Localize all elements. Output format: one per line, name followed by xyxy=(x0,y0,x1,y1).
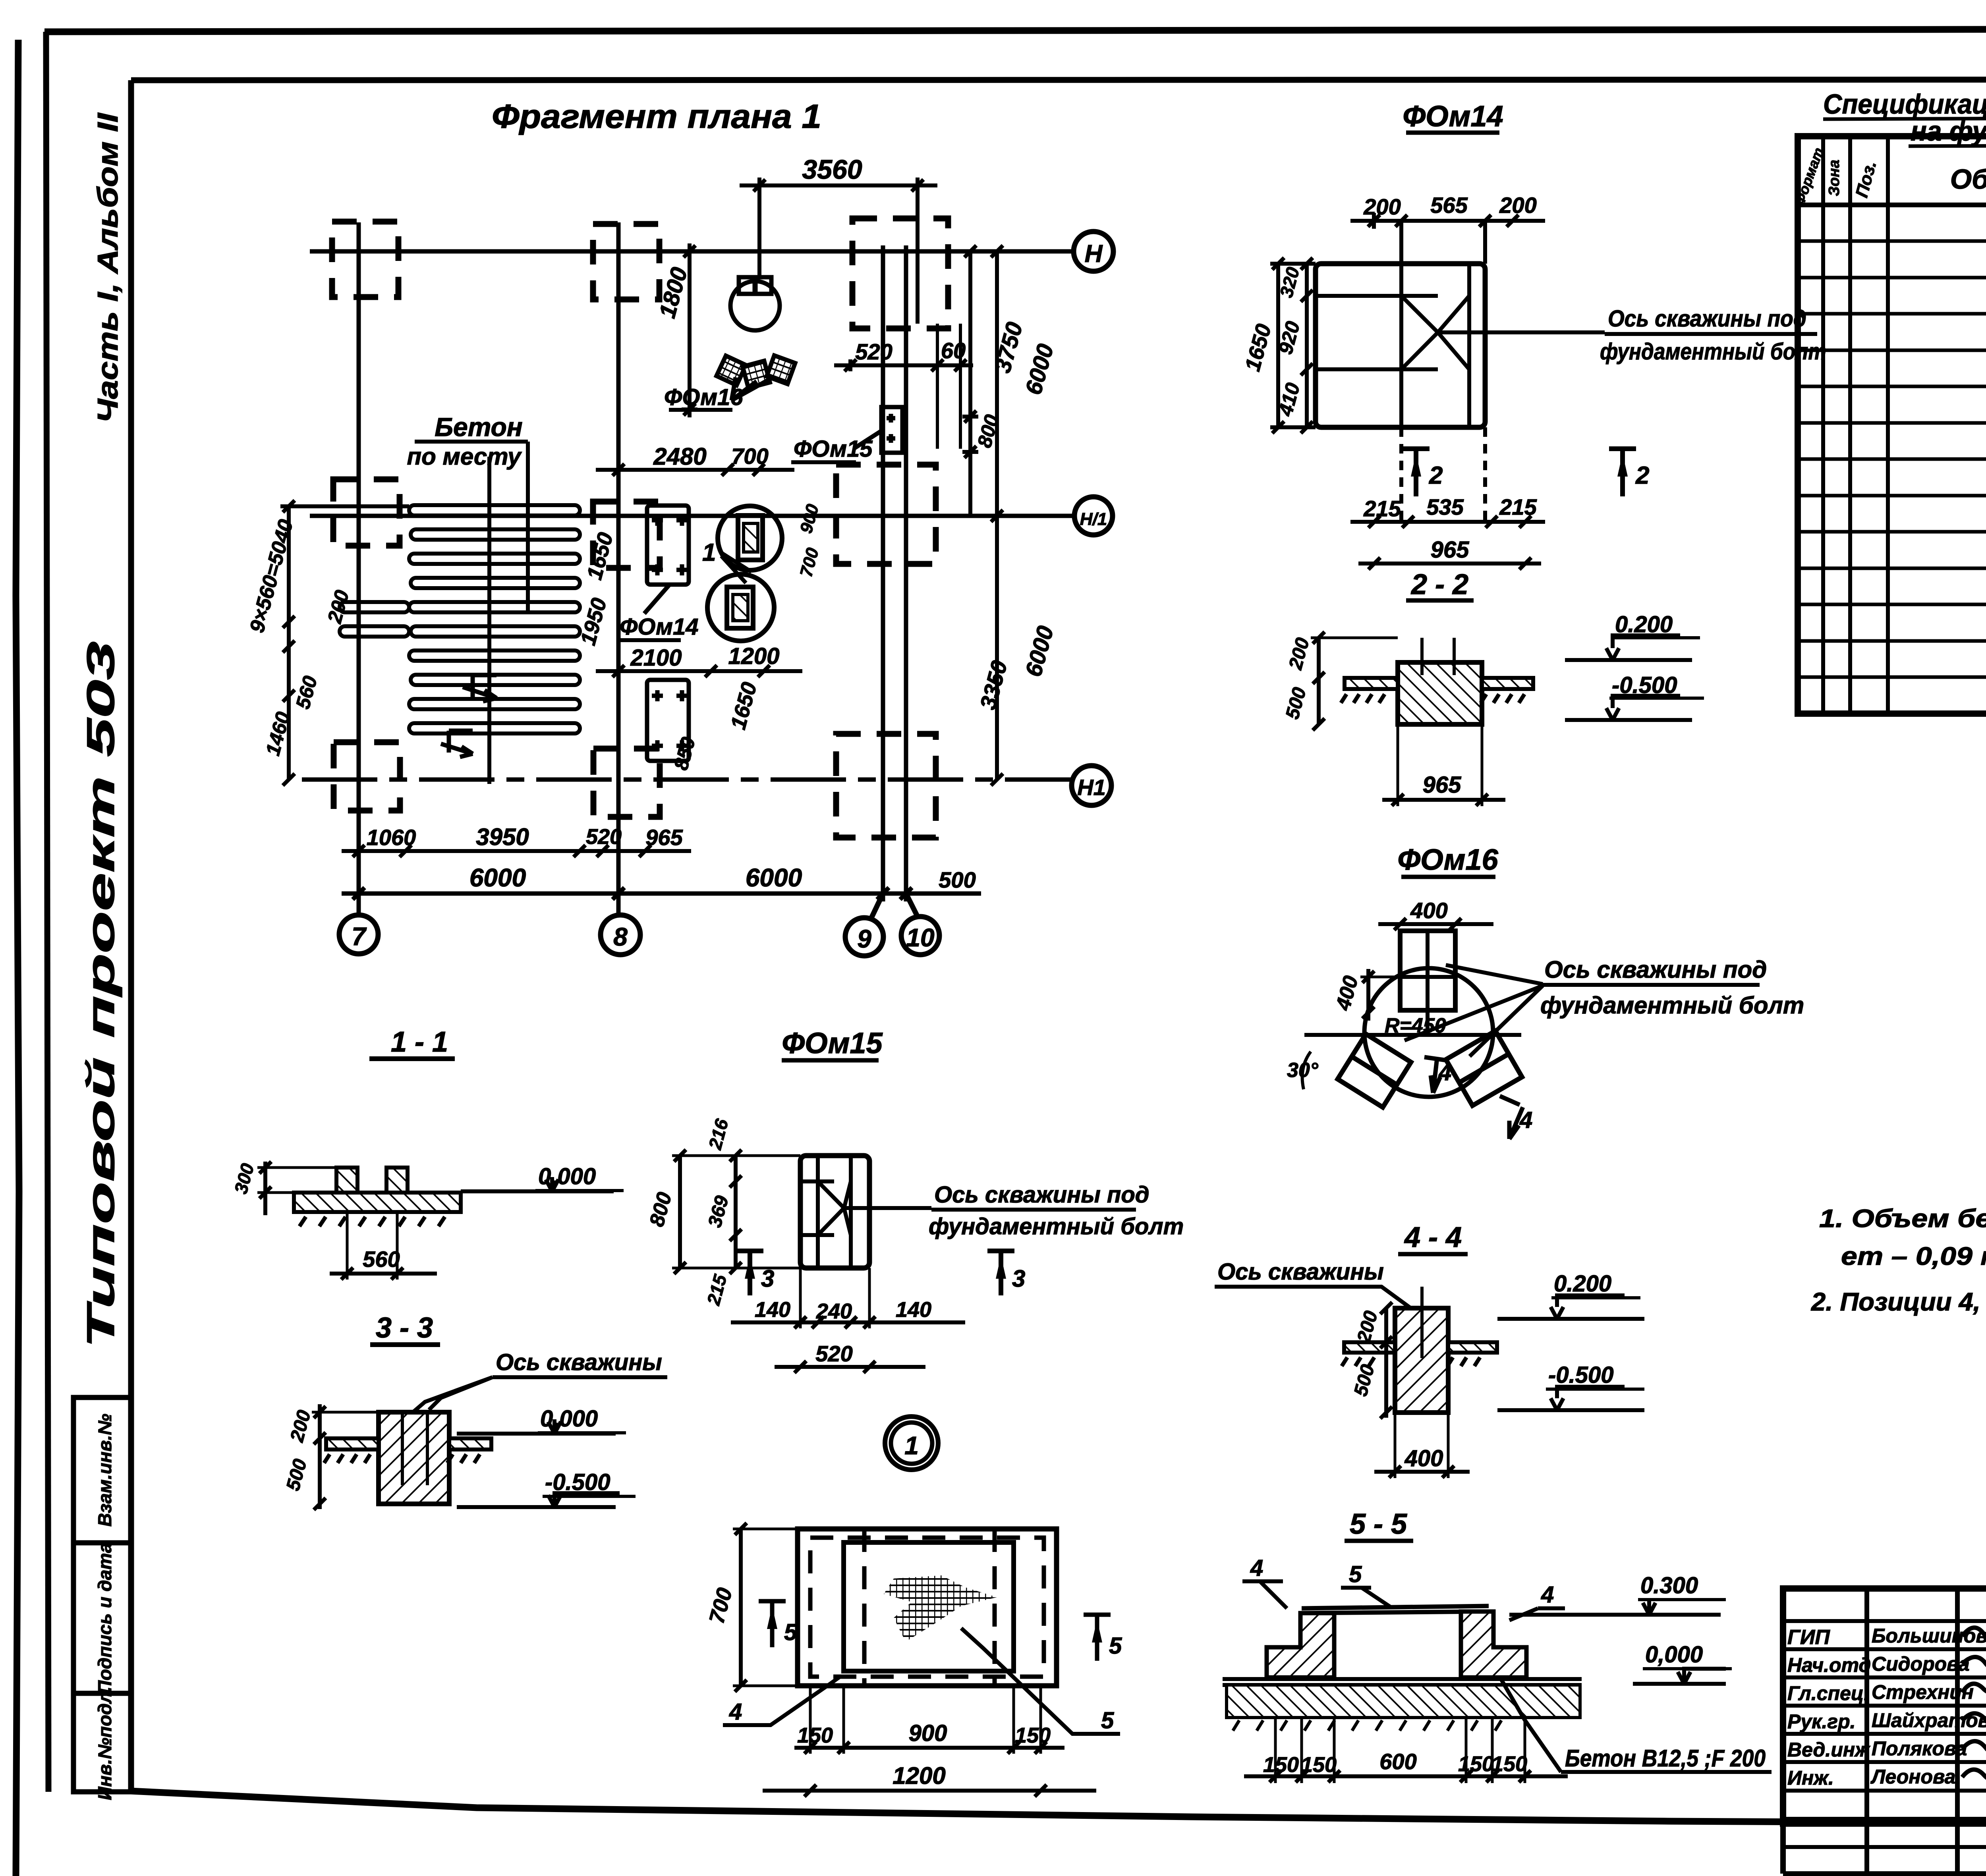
svg-text:фундаментный болт: фундаментный болт xyxy=(1600,339,1826,365)
svg-text:Зона: Зона xyxy=(1826,160,1843,196)
svg-text:0.200: 0.200 xyxy=(1554,1271,1611,1297)
svg-text:10: 10 xyxy=(906,923,934,952)
fom15 small rect in plan xyxy=(855,407,902,453)
axis H line xyxy=(310,249,1074,254)
svg-text:4: 4 xyxy=(1250,1555,1263,1581)
svg-text:560: 560 xyxy=(363,1247,400,1272)
svg-text:на фундамент ФОм14, ФОм15, ФОм: на фундамент ФОм14, ФОм15, ФОм16 xyxy=(1911,116,1986,147)
svg-text:150: 150 xyxy=(797,1724,833,1747)
svg-text:965: 965 xyxy=(1423,772,1462,798)
svg-text:200: 200 xyxy=(1363,194,1401,219)
svg-text:600: 600 xyxy=(1379,1749,1416,1774)
top plate xyxy=(1302,1606,1489,1613)
svg-text:565: 565 xyxy=(1430,193,1468,218)
svg-text:2100: 2100 xyxy=(630,645,682,671)
1-1 slab xyxy=(294,1168,461,1226)
svg-text:5: 5 xyxy=(1349,1561,1362,1587)
svg-text:0.000: 0.000 xyxy=(540,1406,598,1432)
bottom dims xyxy=(794,1686,1064,1754)
left dims xyxy=(1380,1302,1392,1419)
main stamp outer xyxy=(1783,1588,1986,1874)
svg-text:-0.500: -0.500 xyxy=(545,1469,610,1495)
ground level double line xyxy=(1223,1679,1582,1685)
svg-text:Инж.: Инж. xyxy=(1787,1767,1834,1789)
svg-text:ет – 0,09 м³: ет – 0,09 м³ xyxy=(1841,1242,1986,1270)
svg-text:4: 4 xyxy=(1519,1107,1532,1133)
svg-text:9: 9 xyxy=(857,924,871,953)
svg-text:Ось скважины: Ось скважины xyxy=(1217,1259,1384,1285)
svg-text:Полякова: Полякова xyxy=(1872,1737,1967,1760)
axis 9 line xyxy=(881,245,885,901)
2-2 floor strips xyxy=(1341,678,1533,703)
svg-text:2: 2 xyxy=(1635,462,1649,489)
2-2 left dims xyxy=(1311,632,1398,730)
svg-text:535: 535 xyxy=(1426,494,1464,519)
svg-text:Подпись и дата: Подпись и дата xyxy=(94,1543,115,1694)
inner frame left xyxy=(128,80,134,1792)
svg-text:ФОм16: ФОм16 xyxy=(1397,843,1498,876)
fom16 symbol in plan xyxy=(717,277,795,400)
svg-text:ФОм15: ФОм15 xyxy=(782,1027,883,1060)
svg-text:6000: 6000 xyxy=(469,863,526,892)
scan edge streak xyxy=(16,40,19,1876)
3-3 left dims xyxy=(312,1404,379,1510)
svg-text:Гл.спец.: Гл.спец. xyxy=(1787,1682,1869,1704)
svg-text:150: 150 xyxy=(1458,1752,1494,1776)
svg-text:900: 900 xyxy=(909,1720,947,1746)
svg-text:по месту: по месту xyxy=(407,443,522,470)
dimensions 2480 700 xyxy=(596,464,794,476)
svg-text:фундаментный болт: фундаментный болт xyxy=(1540,992,1804,1019)
svg-text:150: 150 xyxy=(1491,1752,1527,1776)
svg-text:4: 4 xyxy=(729,1699,742,1725)
section 4 marks xyxy=(1424,1057,1523,1139)
left side dim chain xyxy=(281,500,297,786)
spec table grid xyxy=(1798,136,1986,714)
svg-text:Взам.инв.№: Взам.инв.№ xyxy=(94,1414,115,1527)
fom15 plan rect xyxy=(800,1156,931,1268)
levels xyxy=(1497,1295,1644,1410)
svg-text:1. Объем бетона на узел 1 (: 1. Объем бетона на узел 1 ( штук 2) сост… xyxy=(1819,1204,1986,1233)
1-1 left dim 300 xyxy=(257,1162,336,1215)
svg-text:ФОм16: ФОм16 xyxy=(664,384,743,410)
tilted squares xyxy=(1338,1031,1522,1107)
axis H/1 line xyxy=(310,514,1074,518)
svg-text:ФОм14: ФОм14 xyxy=(1403,100,1503,133)
svg-text:965: 965 xyxy=(645,825,683,850)
svg-text:60: 60 xyxy=(941,338,966,363)
axis 7 line xyxy=(357,222,361,915)
svg-text:фундаментный болт: фундаментный болт xyxy=(929,1214,1184,1239)
svg-text:215: 215 xyxy=(1363,496,1401,521)
left dim 400 xyxy=(1360,969,1400,1021)
svg-text:Спецификация монолитной бето: Спецификация монолитной бетонной констру… xyxy=(1823,89,1986,120)
svg-text:Ось скважины под: Ось скважины под xyxy=(1608,306,1806,332)
svg-text:Бетон: Бетон xyxy=(435,412,522,442)
section 3 marks xyxy=(736,1251,1014,1295)
1-1 bottom dim 560 xyxy=(330,1212,437,1280)
pier xyxy=(1395,1287,1448,1413)
left step block xyxy=(1267,1613,1334,1677)
svg-text:965: 965 xyxy=(1431,537,1470,563)
axis H1 line xyxy=(302,778,1072,782)
leaders xyxy=(1404,965,1543,1056)
left dim 700 xyxy=(733,1523,798,1692)
svg-text:500: 500 xyxy=(939,867,976,892)
svg-text:ГИП: ГИП xyxy=(1787,1626,1830,1649)
svg-text:200: 200 xyxy=(1499,193,1536,218)
3-3 floor strips xyxy=(324,1438,491,1463)
svg-text:520: 520 xyxy=(586,825,622,849)
plus-mark rects xyxy=(644,506,689,761)
svg-text:Леонова: Леонова xyxy=(1870,1766,1955,1788)
svg-text:1: 1 xyxy=(702,539,716,566)
dimensions 520 60 xyxy=(834,359,973,371)
top dim 400 xyxy=(1378,918,1493,930)
right side dim chain xyxy=(962,245,1005,786)
svg-text:150: 150 xyxy=(1015,1724,1051,1747)
svg-text:2 - 2: 2 - 2 xyxy=(1410,569,1468,600)
ground hatch band xyxy=(1227,1685,1580,1718)
svg-text:Часть I, Альбом II: Часть I, Альбом II xyxy=(92,112,124,423)
right step block xyxy=(1461,1612,1526,1677)
node detail rect xyxy=(798,1529,1057,1686)
svg-text:3560: 3560 xyxy=(802,154,862,185)
fom14 plan rect xyxy=(1316,264,1605,427)
outer border left xyxy=(46,32,48,1792)
inner frame top xyxy=(131,79,1986,80)
svg-text:Сидорова: Сидорова xyxy=(1872,1653,1970,1675)
svg-text:1 - 1: 1 - 1 xyxy=(391,1026,448,1058)
3-3 pier xyxy=(379,1412,449,1504)
top dims 200 565 200 xyxy=(1350,213,1545,264)
dimension 1800 xyxy=(682,243,697,417)
svg-text:0.200: 0.200 xyxy=(1615,612,1673,637)
fom15 bottom dims xyxy=(731,1268,965,1328)
column dashed squares xyxy=(332,218,948,838)
bottom dim chain upper xyxy=(342,845,691,857)
svg-text:Н1: Н1 xyxy=(1077,775,1106,800)
svg-text:Фрагмент плана 1: Фрагмент плана 1 xyxy=(492,98,821,135)
node 1 bubble xyxy=(885,1417,938,1470)
2-2 pier xyxy=(1398,638,1482,724)
svg-text:Нач.отд: Нач.отд xyxy=(1787,1654,1871,1676)
bottom dim 400 xyxy=(1374,1413,1470,1478)
bottom dims xyxy=(1244,1718,1568,1783)
svg-text:0.300: 0.300 xyxy=(1640,1573,1698,1598)
svg-text:Ось скважины под: Ось скважины под xyxy=(934,1182,1149,1208)
svg-text:400: 400 xyxy=(1410,898,1447,923)
svg-text:Ось скважины под: Ось скважины под xyxy=(1544,956,1767,983)
dimension 3560 xyxy=(740,178,937,324)
svg-text:2: 2 xyxy=(1429,462,1443,489)
section 5 marks xyxy=(759,1601,1111,1661)
svg-text:-0.500: -0.500 xyxy=(1548,1362,1613,1388)
floor strips xyxy=(1342,1342,1497,1366)
bottom dims 215 535 215 xyxy=(1350,427,1545,528)
fom15 left dims xyxy=(672,1150,800,1274)
fom16 square xyxy=(1400,931,1455,1035)
section 2 marks xyxy=(1403,449,1636,496)
svg-text:140: 140 xyxy=(896,1298,931,1322)
svg-text:5: 5 xyxy=(784,1619,797,1645)
axis circles xyxy=(339,232,1113,956)
svg-text:5 - 5: 5 - 5 xyxy=(1350,1508,1407,1540)
svg-text:3 - 3: 3 - 3 xyxy=(376,1312,433,1344)
svg-text:4: 4 xyxy=(1438,1060,1451,1085)
svg-text:4 - 4: 4 - 4 xyxy=(1404,1222,1462,1253)
2-2 levels xyxy=(1565,635,1692,720)
svg-text:1200: 1200 xyxy=(728,643,779,669)
2-2 bottom dim 965 xyxy=(1382,724,1505,806)
svg-text:Ось скважины: Ось скважины xyxy=(496,1349,662,1375)
svg-text:2. Позиции 4, 5 смотри в сп: 2. Позиции 4, 5 смотри в спецификации на… xyxy=(1811,1287,1986,1316)
svg-text:Стрехнин: Стрехнин xyxy=(1872,1681,1974,1703)
svg-text:1: 1 xyxy=(904,1431,919,1460)
arrow marks in slats xyxy=(441,675,496,757)
axis 8 line xyxy=(616,222,621,915)
svg-text:700: 700 xyxy=(731,444,768,469)
svg-text:ФОм14: ФОм14 xyxy=(620,614,699,640)
R450 circle xyxy=(1364,968,1493,1097)
bottom dim 965 xyxy=(1358,558,1541,569)
bottom dim chain lower xyxy=(342,888,981,899)
svg-text:150: 150 xyxy=(1301,1753,1337,1777)
svg-text:6000: 6000 xyxy=(746,863,802,892)
svg-text:Вед.инж: Вед.инж xyxy=(1787,1739,1870,1761)
left dims 1650 920 410 xyxy=(1270,258,1316,433)
axis 10 line xyxy=(904,245,908,901)
svg-text:Типовой проект 503: Типовой проект 503 xyxy=(79,641,122,1348)
svg-text:ФОм15: ФОм15 xyxy=(794,436,873,462)
svg-text:1200: 1200 xyxy=(893,1762,945,1789)
svg-text:Н: Н xyxy=(1085,240,1103,268)
svg-text:3: 3 xyxy=(1012,1265,1025,1292)
node detail circles in plan xyxy=(707,506,782,641)
svg-text:Инв.№подл.: Инв.№подл. xyxy=(94,1687,115,1800)
svg-text:5: 5 xyxy=(1101,1708,1114,1733)
svg-text:1060: 1060 xyxy=(367,825,416,850)
svg-text:400: 400 xyxy=(1404,1446,1443,1471)
svg-text:5: 5 xyxy=(1109,1633,1122,1659)
svg-text:Рук.гр.: Рук.гр. xyxy=(1787,1710,1856,1733)
svg-text:Бетон В12,5 ;F 200: Бетон В12,5 ;F 200 xyxy=(1565,1745,1766,1772)
svg-text:150: 150 xyxy=(1263,1753,1299,1777)
svg-text:Обозначение: Обозначение xyxy=(1950,164,1986,195)
svg-text:4: 4 xyxy=(1541,1582,1554,1608)
outer border top xyxy=(44,29,1986,32)
svg-text:0,000: 0,000 xyxy=(1645,1642,1703,1668)
svg-text:8: 8 xyxy=(613,923,628,951)
svg-text:140: 140 xyxy=(755,1298,790,1322)
inner frame bottom (sloped) xyxy=(131,1791,1986,1826)
crosshatch blob arrow xyxy=(884,1575,997,1642)
left bottom stamp column xyxy=(73,1397,131,1792)
svg-text:7: 7 xyxy=(352,922,367,951)
signatures squiggles xyxy=(1962,1625,1986,1780)
svg-text:3950: 3950 xyxy=(476,824,529,850)
slat bars (beton po mestu trench) xyxy=(280,442,580,784)
svg-text:520: 520 xyxy=(815,1341,852,1366)
svg-text:215: 215 xyxy=(1499,494,1537,519)
svg-text:2480: 2480 xyxy=(653,443,706,470)
svg-text:240: 240 xyxy=(816,1299,852,1323)
svg-text:Н/1: Н/1 xyxy=(1080,510,1107,529)
svg-text:-0.500: -0.500 xyxy=(1612,672,1677,698)
svg-text:520: 520 xyxy=(855,339,892,364)
dimensions 2100 1200 xyxy=(596,665,802,677)
